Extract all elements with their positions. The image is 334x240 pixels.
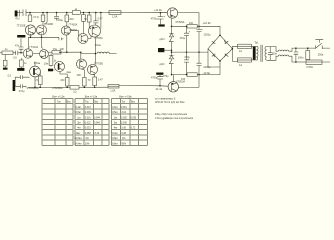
resistor R9 15k [48,48,64,54]
svg-text:ГТ705Б: ГТ705Б [94,63,103,66]
fuse F3 1A [238,44,252,53]
capacitor C8 black bar [48,69,55,72]
svg-text:100н: 100н [271,52,277,55]
svg-text:0,058: 0,058 [85,133,92,135]
node dots supply bottom [171,74,200,76]
svg-text:6,4вт: 6,4вт [112,133,118,135]
svg-text:0,5бА: 0,5бА [306,66,313,69]
wire feedback y52.2 [61,51,81,53]
svg-text:0,5вт: 0,5вт [76,112,82,114]
svg-text:100н: 100н [298,57,304,60]
wire Q5 to Q6 [71,31,79,37]
node dots rail [29,12,101,14]
capacitor C9 feedback top [16,75,30,79]
fuse F5 0.5A [306,60,330,69]
polarity marks [164,15,203,33]
svg-text:100μ: 100μ [57,19,63,22]
bridge diode 1 [212,41,216,44]
resistor R16 100 on rail [187,22,197,28]
svg-text:4ма: 4ма [66,71,71,74]
svg-text:1,5А: 1,5А [110,89,115,92]
svg-text:0,011: 0,011 [121,107,127,109]
svg-text:0,3вт: 0,3вт [76,107,82,109]
wire fuses to transformer [252,46,257,60]
svg-text:0,5: 0,5 [8,75,12,78]
capacitor C18 100n [294,47,304,62]
svg-text:1А: 1А [239,64,242,67]
resistor R10 1k [49,54,57,67]
svg-text:30ма: 30ма [95,44,101,47]
svg-text:0,28: 0,28 [121,133,126,135]
resistor R15 on rail [70,86,79,94]
resistor R3 200 [65,13,74,27]
zener VD2 pair [159,48,173,75]
svg-text:0,044: 0,044 [94,117,101,119]
rail +10.6v [172,21,221,35]
capacitor C11 4700u bottom [151,75,163,86]
svg-text:0,5: 0,5 [13,57,17,60]
transistor Q1 GT320B [17,24,36,35]
svg-text:250в: 250в [318,54,324,57]
svg-text:14,4вт: 14,4вт [75,143,83,145]
transistor Q8 KT805 left [27,66,41,90]
node bridge bottom [219,60,221,62]
wire top positive rail [26,11,168,13]
ground bar under R8 [17,68,24,71]
svg-text:0,72: 0,72 [131,128,136,130]
fuse F4 1A [238,58,252,67]
wire Q3 collector up [27,37,29,49]
ground bar upper-left [17,35,25,38]
svg-text:8,8вт: 8,8вт [112,143,118,145]
resistor R4 1k on rail [72,8,80,14]
svg-text:1,5ма: 1,5ма [34,62,41,65]
node dots bus [30,37,43,39]
svg-text:+11.3в: +11.3в [154,8,162,12]
svg-text:1Ω: 1Ω [73,90,76,93]
capacitor C15 470u bottom [184,52,190,75]
svg-text:д213: д213 [159,39,165,41]
ground input [3,55,8,70]
transformer T1 [253,42,270,62]
capacitor C5 mid [57,37,64,40]
wire U2 base up [172,75,174,82]
svg-text:0,009: 0,009 [85,112,92,114]
svg-text:4700μ: 4700μ [151,77,159,80]
svg-text:1А: 1А [239,50,242,53]
capacitor C4 4700u [151,13,164,25]
svg-text:1%: 1% [122,138,125,140]
transistor U1 KT829A [167,8,184,24]
wire collector Q5 [100,13,102,29]
svg-text:470μ: 470μ [180,37,186,40]
capacitor C16 2200u bottom [197,52,211,75]
svg-text:0,016: 0,016 [85,117,92,119]
node -11.3v [155,85,163,91]
fuse F1 1.5A [109,11,121,19]
svg-text:0,5вт: 0,5вт [112,112,118,114]
transistor Q6 P605A [78,34,88,44]
resistor R7 input 1k [0,48,13,55]
svg-text:0,022: 0,022 [85,123,92,125]
svg-text:+10.6в: +10.6в [203,21,212,25]
wire R6 to Q7 [89,27,91,29]
table 1 frame [42,96,73,146]
wire Q8 emitter down [34,61,36,87]
svg-text:0,025: 0,025 [121,117,128,119]
transistor U2 KT853A [168,80,185,92]
resistor R5 [82,13,86,34]
wire bridge AC right [232,46,237,61]
wire bridge AC left [208,49,220,67]
svg-text:0,030: 0,030 [121,123,128,125]
svg-text:0,030: 0,030 [130,117,137,119]
svg-text:470μ: 470μ [184,56,190,59]
svg-text:2200μ: 2200μ [204,34,212,37]
wire emitters to bus [31,34,42,38]
bridge diode 2 [224,40,228,44]
wire bus y37.3 [28,36,57,38]
wire Q6 right [88,36,91,39]
svg-text:69%: 69% [121,143,126,145]
svg-text:0,064: 0,064 [94,123,101,125]
transistor Q3 GT313A [23,46,38,58]
svg-text:д213: д213 [159,64,165,66]
svg-text:КТ829А: КТ829А [176,21,185,24]
capacitor C3 0.47 [93,13,103,26]
svg-text:ГТ320Б: ГТ320Б [44,23,53,26]
svg-text:47п: 47п [15,16,20,20]
svg-text:1%: 1% [85,138,88,140]
resistor R1 [28,13,36,22]
node bridge right [232,48,234,50]
wire collector Q2 [45,13,47,25]
rail -10.6v [172,61,221,75]
svg-text:17м/ц драйвера тока потреблени: 17м/ц драйвера тока потребления [155,117,194,120]
capacitor C17 100n [268,47,278,61]
resistor R8 under Q3 [19,58,27,68]
svg-text:200: 200 [60,48,65,51]
wire U1 emitter left [160,12,167,14]
capacitor C12 bar [158,48,172,52]
bridge diode 3 [212,54,216,57]
node dots supply top [171,26,200,28]
svg-text:240: 240 [60,79,65,82]
svg-text:6,13: 6,13 [95,133,100,135]
svg-text:0,47: 0,47 [98,17,103,20]
ground bar bottom [156,73,163,75]
resistor R11 1.5 [34,73,42,88]
resistor R14 0.47 [93,75,104,88]
bottom rail negative [28,85,168,87]
resistor R13 [82,69,91,87]
fuse F2 on rail [108,84,119,92]
svg-text:АН6 26.70-С1 (цб) 1вт Вои: АН6 26.70-С1 (цб) 1вт Вои [155,101,185,104]
svg-text:ГТ320Б: ГТ320Б [17,24,26,27]
wire mains bottom [296,61,306,63]
wire mains top [296,47,316,49]
inductor L1 [97,52,117,54]
svg-text:ГТ313А: ГТ313А [29,46,38,49]
svg-text:2200μ: 2200μ [203,66,211,69]
svg-text:0,3вт: 0,3вт [112,107,118,109]
svg-text:470μ: 470μ [163,75,169,78]
svg-text:470μ: 470μ [19,90,25,93]
node dots feedback [59,51,81,53]
svg-text:0,01: 0,01 [122,112,127,114]
svg-text:-11.3в: -11.3в [155,87,163,91]
transistor Q11 mid driver [77,59,87,69]
bridge diode 4 [224,54,228,58]
svg-text:10%: 10% [85,143,90,145]
wire U2 collector right [179,75,200,88]
svg-text:24му +5цб тока потребления: 24му +5цб тока потребления [155,113,188,116]
svg-text:-10.6в: -10.6в [203,71,211,75]
capacitor C13 470u top [180,26,189,52]
svg-text:6,8вт: 6,8вт [112,138,118,140]
wire output left [81,52,96,59]
resistor R6 70 [84,13,91,28]
wire Q4 base [33,37,43,53]
capacitor C7 47p [15,38,23,53]
transistor Q4 GT313A [40,50,49,59]
annotation text block [155,98,194,120]
capacitor C6 input [13,51,23,60]
wire Q11 top [80,58,82,60]
svg-text:ГТ402А: ГТ402А [69,24,78,27]
svg-text:шт германиевых 6: шт германиевых 6 [155,98,176,101]
node +11.3v [154,8,162,13]
svg-text:4700μ: 4700μ [151,18,159,21]
svg-text:100: 100 [189,22,194,25]
switch S1 [315,40,330,49]
mid rail ground [172,51,209,53]
resistor R18 [306,47,310,62]
wire U1 collector right [178,12,199,26]
node bridge top [219,34,221,36]
svg-text:200: 200 [69,18,74,21]
svg-text:13,8вт: 13,8вт [75,138,83,140]
node dots mid rail [171,50,200,53]
table 2 frame [75,96,109,146]
svg-text:200: 200 [77,74,82,77]
capacitor C1 47p [15,10,28,21]
transistor Q2 GT320B [37,23,54,35]
svg-text:0,06: 0,06 [121,128,126,130]
svg-text:10в: 10в [44,63,49,66]
transistor Q10 GT705B [88,63,104,75]
wire Q5 emitter down [66,35,68,52]
capacitor C10 470u [16,84,26,93]
resistor R17 100 bottom rail [181,73,197,81]
transistor Q7 GT705A [89,25,104,40]
node dots bottom [34,87,95,89]
choke L2 [270,47,296,63]
svg-text:Тр1: Тр1 [254,42,259,45]
zener VD1 pair [159,26,173,48]
bridge VD3 diamond [208,35,232,61]
resistor R2 [37,13,45,25]
capacitor C14 2200u top [197,26,212,52]
table 3 frame [112,96,148,146]
svg-text:КТ853А: КТ853А [176,80,185,83]
wire Q7 collector down [95,37,97,65]
transistor Q9 KT805 right [52,62,64,90]
node output [95,53,97,55]
wire U1 base down [171,18,173,26]
ground bar top [158,24,164,26]
resistor R12 240 [60,72,69,88]
svg-text:47п: 47п [15,44,20,47]
transistor Q5 GT402A [61,24,77,35]
svg-text:0,010: 0,010 [85,107,92,109]
svg-text:1,5А: 1,5А [112,14,118,18]
capacitor C2 100u [54,13,63,22]
svg-text:0,47: 0,47 [98,78,103,81]
svg-text:0,033: 0,033 [85,128,92,130]
electrolytic bar C10 [8,75,16,91]
